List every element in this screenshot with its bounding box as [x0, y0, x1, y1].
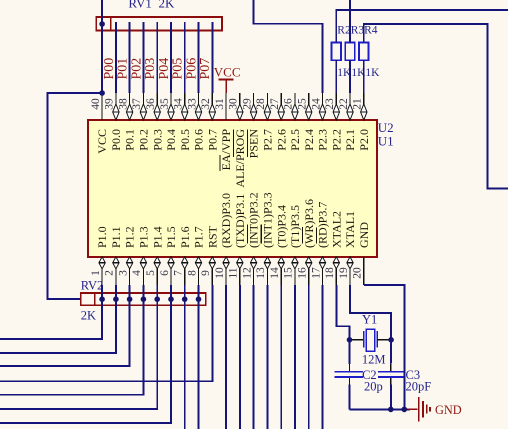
svg-text:9: 9 [200, 270, 212, 276]
wire net to P2.3 (pin 24) from sheet top [254, 0, 323, 93]
svg-text:RV1: RV1 [128, 0, 152, 11]
svg-text:P2.5: P2.5 [288, 129, 302, 151]
C2 value 20p [364, 379, 383, 393]
net label P04 [157, 58, 172, 80]
svg-text:RST: RST [205, 225, 219, 248]
svg-text:7: 7 [173, 270, 185, 276]
wire RV1 pin 9 to IC pin 32 (net P07) [211, 22, 213, 93]
svg-text:40: 40 [90, 98, 102, 110]
svg-text:P0.5: P0.5 [178, 129, 192, 151]
wire XTAL2 (pin 18) to crystal left [336, 285, 349, 340]
pin 37 (P0.2) top [131, 93, 146, 120]
U1 bottom-row port labels [95, 192, 371, 248]
C3 value 20pF [406, 379, 432, 393]
resistor R4 1K [359, 43, 369, 61]
wire P1.2 (pin 3) [0, 285, 130, 366]
U1 top-row port labels [95, 129, 371, 188]
svg-text:19: 19 [338, 267, 350, 279]
pin 32 (P0.7) top [200, 93, 215, 120]
net label P00 [102, 58, 117, 80]
pin 25 (P2.4) top [297, 93, 312, 120]
svg-text:PSEN: PSEN [247, 129, 261, 159]
junction RV2 pin 3 [113, 296, 119, 302]
wire P1.6 (pin 7) [184, 285, 186, 429]
svg-text:33: 33 [186, 98, 198, 110]
resistor R3 1K [345, 43, 355, 61]
svg-text:2: 2 [104, 270, 116, 276]
svg-text:P0.3: P0.3 [150, 129, 164, 151]
pin 13 ((INT1)P3.3) bottom [255, 257, 270, 285]
pin 30 (ALE/PROG) top [228, 93, 243, 120]
wire P3.5 (pin 15) to bottom edge [294, 285, 296, 429]
svg-text:P2.0: P2.0 [357, 129, 371, 151]
wire RV1 pin 8 to IC pin 33 (net P06) [198, 22, 200, 93]
wire C3 bottom to ground rail [390, 378, 392, 410]
pin 12 ((INT0)P3.2) bottom [241, 257, 256, 285]
pin 22 (P2.1) top [338, 93, 353, 120]
junction RV2 pin 4 [127, 296, 133, 302]
resistor R2 1K [331, 43, 341, 61]
svg-text:12: 12 [241, 267, 253, 279]
junction crystal right [388, 337, 394, 343]
svg-text:(T1)P3.5: (T1)P3.5 [288, 205, 302, 248]
wire P1.7 (pin 8) [198, 285, 200, 429]
svg-text:38: 38 [117, 98, 129, 110]
pin 21 (P2.0) top [352, 93, 367, 120]
svg-text:13: 13 [255, 267, 267, 279]
svg-text:(T0)P3.4: (T0)P3.4 [274, 205, 288, 248]
svg-text:P0.1: P0.1 [123, 129, 137, 151]
pin 26 (P2.5) top [283, 93, 298, 120]
resistor network RV2 [81, 293, 206, 305]
svg-text:R2R3R4: R2R3R4 [337, 24, 378, 36]
svg-text:P1.7: P1.7 [192, 226, 206, 248]
svg-text:RV2: RV2 [81, 279, 104, 293]
svg-text:P0.6: P0.6 [192, 129, 206, 151]
svg-text:(RD)P3.7: (RD)P3.7 [316, 202, 330, 248]
pin 31 (EA/VPP) top [214, 93, 226, 120]
pin 8 (P1.7) bottom [186, 257, 201, 285]
wire RST (pin 9) to left edge [0, 285, 212, 381]
svg-text:20pF: 20pF [406, 379, 432, 393]
pin 5 (P1.4) bottom [145, 257, 160, 285]
wire RV1 pin 4 to IC pin 37 (net P02) [142, 22, 144, 93]
svg-text:23: 23 [324, 98, 336, 110]
junction RV2 pin 6 [154, 296, 160, 302]
crystal Y1 [352, 329, 389, 351]
wire crystal left down to C2 [349, 340, 351, 371]
wire P3.2 (pin 12) to bottom edge [253, 285, 255, 429]
op: IC body U1 (8051 MCU) [88, 120, 377, 257]
pin 34 (P0.5) top [173, 93, 188, 120]
wire P3.4 (pin 14) to bottom edge [280, 285, 282, 429]
pin 29 (PSEN) top [241, 93, 256, 120]
pin 15 ((T1)P3.5) bottom [283, 257, 298, 285]
pin 4 (P1.3) bottom [131, 257, 146, 285]
svg-text:P1.2: P1.2 [123, 226, 137, 248]
R2R3R4 designators [337, 24, 378, 36]
pin 16 ((WR)P3.6) bottom [297, 257, 312, 285]
overline over INT1 (pin 13 label) [260, 225, 262, 244]
svg-text:P06: P06 [184, 58, 199, 80]
svg-text:3: 3 [117, 270, 129, 276]
junction at RV1 common pin [99, 21, 105, 27]
pin 35 (P0.4) top [159, 93, 174, 120]
svg-text:(INT0)P3.2: (INT0)P3.2 [247, 192, 261, 248]
svg-text:P1.6: P1.6 [178, 226, 192, 248]
pin 36 (P0.3) top [145, 93, 160, 120]
svg-text:27: 27 [269, 98, 281, 110]
svg-text:P1.1: P1.1 [109, 226, 123, 248]
svg-text:1K1K1K: 1K1K1K [337, 67, 380, 79]
svg-text:22: 22 [338, 98, 350, 110]
RV1 label "RV1 2K" [128, 0, 175, 11]
wire P1.5 (pin 6) [0, 285, 171, 423]
pin 24 (P2.3) top [310, 93, 325, 120]
designator U2 [378, 120, 394, 135]
svg-text:(TXD)P3.1: (TXD)P3.1 [233, 194, 247, 248]
wire GND pin 20 to ground rail [364, 285, 405, 410]
svg-text:32: 32 [200, 98, 212, 110]
pin 28 (P2.7) top [255, 93, 270, 120]
wire P3.6 (pin 16) to bottom edge [308, 285, 310, 429]
svg-text:P2.4: P2.4 [302, 129, 316, 151]
svg-text:26: 26 [283, 98, 295, 110]
wire branch to RV2 common (left rail) [48, 93, 103, 299]
junction at pin 40 branch [99, 90, 105, 96]
svg-text:P1.0: P1.0 [95, 226, 109, 248]
svg-text:36: 36 [145, 98, 157, 110]
svg-text:P2.6: P2.6 [274, 129, 288, 151]
svg-text:P0.4: P0.4 [164, 129, 178, 151]
svg-text:U1: U1 [378, 133, 394, 148]
svg-text:P2.3: P2.3 [316, 129, 330, 151]
svg-text:6: 6 [159, 270, 171, 276]
overline over PSEN (pin 29 label) [246, 130, 248, 158]
pin 9 (RST) bottom [200, 257, 215, 285]
pin 20 (GND) bottom [352, 257, 364, 285]
wire R4 top to sheet right edge [364, 24, 508, 189]
svg-text:P1.3: P1.3 [137, 226, 151, 248]
svg-text:GND: GND [435, 403, 462, 417]
junction ground rail / pin 20 [402, 407, 408, 413]
ground symbol GND [408, 397, 430, 421]
svg-text:12M: 12M [362, 352, 386, 366]
svg-text:P07: P07 [198, 58, 213, 80]
svg-text:ALE/PROG: ALE/PROG [233, 129, 247, 188]
svg-text:31: 31 [214, 98, 226, 110]
C3 designator [406, 368, 421, 382]
wire P3.0 (pin 10) to bottom edge [225, 285, 227, 429]
RV2 designator [81, 279, 104, 293]
net label P01 [116, 58, 131, 80]
capacitor C3 20pF [378, 372, 404, 377]
wire R4 bottom to pin 21 [363, 60, 365, 93]
pin 7 (P1.6) bottom [173, 257, 188, 285]
1K values for R2 R3 R4 [337, 67, 380, 79]
GND text [435, 403, 462, 417]
svg-text:35: 35 [159, 98, 171, 110]
wire R2 top to sheet right edge [336, 10, 508, 43]
junction crystal left [347, 337, 353, 343]
svg-text:P03: P03 [143, 58, 158, 80]
svg-text:P01: P01 [116, 58, 131, 80]
pin 10 ((RXD)P3.0) bottom [214, 257, 229, 285]
svg-text:P0.0: P0.0 [109, 129, 123, 151]
wire R2 bottom to pin 23 [335, 60, 337, 93]
overline over PROG (pin 30 label) [233, 130, 235, 158]
overline over EA (pin 31 label) [219, 155, 221, 171]
svg-text:P2.1: P2.1 [343, 129, 357, 151]
wire R3 top to sheet top edge [349, 0, 351, 43]
overline over WR (pin 16 label) [302, 227, 304, 244]
svg-text:25: 25 [297, 98, 309, 110]
pin 3 (P1.2) bottom [117, 257, 132, 285]
wire P1.4 (pin 5) [0, 285, 157, 409]
pin 27 (P2.6) top [269, 93, 284, 120]
svg-text:16: 16 [297, 267, 309, 279]
Y1 designator [362, 313, 377, 327]
svg-text:P0.7: P0.7 [205, 129, 219, 151]
wire P1.3 (pin 4) [0, 285, 143, 395]
net label P02 [129, 58, 144, 80]
net label P07 [198, 58, 213, 80]
junction RV2 pin 2 [99, 296, 105, 302]
wire P3.7 (pin 17) to bottom edge [322, 285, 324, 429]
resistor network RV1 [96, 17, 222, 31]
svg-text:5: 5 [145, 270, 157, 276]
pin 6 (P1.5) bottom [159, 257, 174, 285]
pin 33 (P0.6) top [186, 93, 201, 120]
junction ground rail / C3 [388, 407, 394, 413]
C2 designator [362, 368, 377, 382]
pin 2 (P1.1) bottom [104, 257, 119, 285]
pin 39 (P0.0) top [104, 93, 119, 120]
junction RV2 pin 8 [182, 296, 188, 302]
pin 40 (VCC) top [90, 93, 102, 120]
svg-text:2K: 2K [81, 309, 96, 323]
wire RV1 pin 6 to IC pin 35 (net P04) [170, 22, 172, 93]
wire RV1 pin 2 to IC pin 39 (net P00) [115, 22, 117, 93]
svg-text:37: 37 [131, 98, 143, 110]
svg-text:1: 1 [90, 270, 102, 276]
junction RV2 pin 7 [168, 296, 174, 302]
overline over RD (pin 17 label) [315, 228, 317, 244]
wire R3 bottom to pin 22 [349, 60, 351, 93]
svg-text:39: 39 [104, 98, 116, 110]
wire P1.1 (pin 2) [0, 285, 116, 353]
ground rail wire [350, 408, 411, 410]
svg-text:11: 11 [228, 267, 240, 278]
svg-text:14: 14 [269, 267, 281, 279]
svg-text:VCC: VCC [95, 129, 109, 154]
svg-text:28: 28 [255, 98, 267, 110]
pin 18 (XTAL2) bottom [324, 257, 339, 285]
VCC text [214, 64, 241, 79]
svg-text:P2.2: P2.2 [329, 129, 343, 151]
svg-text:GND: GND [357, 222, 371, 248]
power symbol VCC (pin 31) [219, 80, 234, 93]
net label P05 [171, 58, 186, 80]
wire P3.1 (pin 11) to bottom edge [239, 285, 241, 429]
svg-text:XTAL1: XTAL1 [343, 211, 357, 248]
svg-text:10: 10 [214, 267, 226, 279]
svg-text:P02: P02 [129, 58, 144, 80]
svg-text:P05: P05 [171, 58, 186, 80]
RV2 value 2K [81, 309, 96, 323]
svg-text:24: 24 [310, 98, 322, 110]
svg-text:XTAL2: XTAL2 [329, 211, 343, 248]
wire RV1 pin 7 to IC pin 34 (net P05) [184, 22, 186, 93]
pin 23 (P2.2) top [324, 93, 339, 120]
svg-text:(WR)P3.6: (WR)P3.6 [302, 199, 316, 248]
svg-text:P1.4: P1.4 [150, 226, 164, 248]
svg-text:2K: 2K [159, 0, 176, 11]
Y1 value 12M [362, 352, 386, 366]
svg-text:15: 15 [283, 267, 295, 279]
junction RV2 pin 9 [196, 296, 202, 302]
pin 19 (XTAL1) bottom [338, 257, 353, 285]
svg-text:P0.2: P0.2 [137, 129, 151, 151]
svg-text:21: 21 [352, 98, 364, 110]
capacitor C2 20p [335, 372, 363, 377]
svg-text:20: 20 [352, 267, 364, 279]
svg-text:(INT1)P3.3: (INT1)P3.3 [261, 192, 275, 248]
svg-text:17: 17 [310, 267, 322, 279]
svg-text:P1.5: P1.5 [164, 226, 178, 248]
svg-text:34: 34 [173, 98, 185, 110]
junction RV2 pin 5 [141, 296, 147, 302]
wire RV1 pin 5 to IC pin 36 (net P03) [156, 22, 158, 93]
svg-text:8: 8 [186, 270, 198, 276]
svg-text:30: 30 [228, 98, 240, 110]
net label P06 [184, 58, 199, 80]
wire P3.3 (pin 13) to bottom edge [266, 285, 268, 429]
pin 11 ((TXD)P3.1) bottom [228, 257, 243, 285]
svg-text:EA/VPP: EA/VPP [219, 129, 233, 171]
wire crystal right down to C3 [390, 340, 392, 371]
svg-text:20p: 20p [364, 379, 383, 393]
svg-text:Y1: Y1 [362, 313, 377, 327]
wire VCC net vertical (image top to pin 40) [101, 0, 103, 93]
svg-text:(RXD)P3.0: (RXD)P3.0 [219, 193, 233, 248]
wire RV1 pin 3 to IC pin 38 (net P01) [129, 22, 131, 93]
svg-text:P2.7: P2.7 [261, 129, 275, 151]
pin 14 ((T0)P3.4) bottom [269, 257, 284, 285]
wire C2 bottom to ground rail [349, 378, 351, 410]
pin 38 (P0.1) top [117, 93, 132, 120]
net label P03 [143, 58, 158, 80]
svg-text:29: 29 [241, 98, 253, 110]
wire P1.0 (pin 1) [0, 285, 102, 339]
wire XTAL1 (pin 19) to crystal right [350, 285, 391, 340]
svg-text:4: 4 [131, 270, 143, 276]
pin 17 ((RD)P3.7) bottom [310, 257, 325, 285]
overline over INT0 (pin 12 label) [246, 225, 248, 244]
svg-text:18: 18 [324, 267, 336, 279]
pin 1 (P1.0) bottom [90, 257, 105, 285]
designator U1 [378, 133, 394, 148]
svg-text:VCC: VCC [214, 64, 241, 79]
